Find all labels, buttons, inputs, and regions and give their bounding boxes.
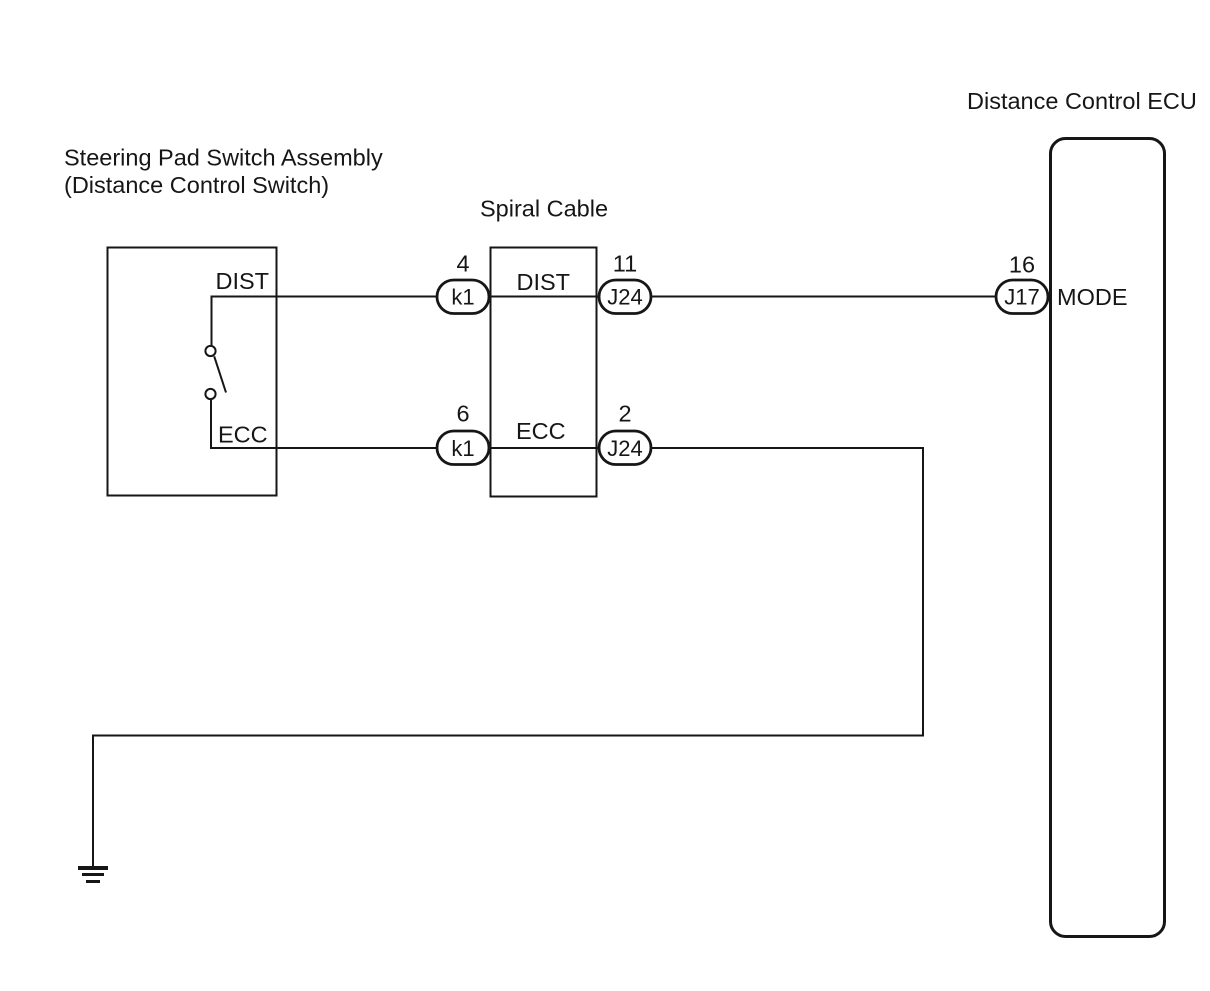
svg-text:J17: J17 xyxy=(1004,285,1039,310)
svg-text:J24: J24 xyxy=(607,285,642,310)
svg-text:2: 2 xyxy=(618,401,631,427)
svg-text:k1: k1 xyxy=(451,285,474,310)
svg-text:MODE: MODE xyxy=(1057,284,1128,310)
svg-text:(Distance Control Switch): (Distance Control Switch) xyxy=(64,172,329,198)
svg-text:ECC: ECC xyxy=(516,418,566,444)
svg-text:ECC: ECC xyxy=(218,422,268,448)
svg-text:k1: k1 xyxy=(451,436,474,461)
svg-text:16: 16 xyxy=(1009,252,1035,278)
svg-text:6: 6 xyxy=(456,401,469,427)
svg-text:Distance Control ECU: Distance Control ECU xyxy=(967,88,1197,114)
svg-text:4: 4 xyxy=(456,251,469,277)
svg-text:Spiral Cable: Spiral Cable xyxy=(480,196,608,222)
svg-text:DIST: DIST xyxy=(216,268,270,294)
svg-text:DIST: DIST xyxy=(517,269,571,295)
svg-text:11: 11 xyxy=(613,251,637,277)
svg-text:J24: J24 xyxy=(607,436,642,461)
svg-text:Steering Pad Switch Assembly: Steering Pad Switch Assembly xyxy=(64,145,383,171)
